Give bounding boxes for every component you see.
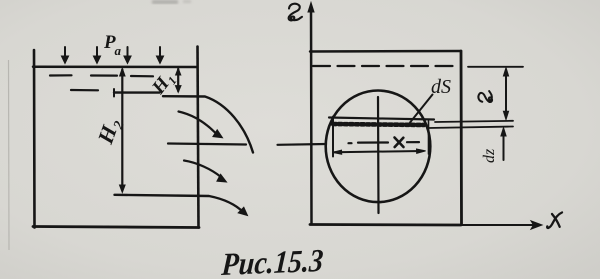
strip dS top chord line: [329, 118, 434, 120]
svg-text:dS: dS: [431, 76, 451, 98]
orifice circle: [326, 91, 431, 203]
tank bottom: [33, 227, 199, 228]
x chord dimension arrow: [333, 149, 426, 154]
top cropped-text smudge: [152, 0, 191, 4]
horizontal axis / centerline segments: [168, 142, 419, 145]
strip dS stippled band: [333, 124, 424, 125]
water surface line: [33, 66, 197, 69]
dimension H1 line: [175, 68, 181, 92]
pressure arrow 2: [93, 47, 100, 64]
streamline with arrow (upper): [179, 112, 216, 133]
faint page-edge line: [8, 60, 11, 250]
dS leader line: [410, 95, 433, 123]
z axis (also tank left edge): [310, 6, 313, 224]
svg-text:dz: dz: [481, 148, 498, 163]
label z (dimension, rotated cursive): [478, 91, 492, 102]
strip extension line top: [435, 121, 513, 122]
label z (axis, cursive): [289, 4, 302, 21]
orifice top edge (left segment with end tick): [114, 91, 160, 93]
label dz (rotated): [481, 148, 498, 163]
dashed liquid level: [313, 65, 459, 67]
label H1: [148, 68, 180, 100]
strip right end line: [428, 121, 430, 154]
strip left end line: [332, 117, 334, 157]
x axis: [461, 224, 536, 226]
label dS: [431, 76, 451, 98]
dimension dz (right side): [501, 128, 506, 160]
label H2: [92, 115, 128, 149]
label x (axis, cursive): [547, 213, 562, 228]
tank top edge: [310, 50, 461, 53]
tank right wall: [198, 47, 199, 228]
pressure arrow 1: [61, 47, 68, 64]
orifice top edge (right segment) + upper jet boundary curve: [163, 96, 253, 152]
pressure arrow 3: [124, 47, 131, 64]
lower jet arrowhead: [238, 207, 247, 215]
dimension H2 line: [120, 68, 126, 192]
x axis arrowhead: [531, 221, 542, 229]
water surface dash marks: [50, 75, 153, 90]
streamline with arrow (lower): [184, 161, 221, 178]
z axis arrowhead: [308, 3, 314, 13]
label Pa: [103, 32, 122, 58]
tank bottom edge: [310, 223, 461, 226]
circle vertical centerline: [377, 97, 380, 213]
svg-text:Рис.15.3: Рис.15.3: [220, 242, 325, 279]
tank left wall: [33, 50, 36, 228]
svg-text:a: a: [115, 43, 122, 58]
orifice bottom edge + lower jet boundary curve: [115, 195, 244, 212]
label x (chord, plain crossing strokes): [395, 138, 404, 148]
caption Puc.15.3: [220, 242, 325, 279]
tank right edge: [460, 51, 463, 225]
dimension z (right side): [503, 68, 508, 120]
pressure arrow 4: [156, 47, 163, 64]
level extension line (right): [468, 66, 523, 68]
strip extension line bottom: [428, 127, 513, 129]
